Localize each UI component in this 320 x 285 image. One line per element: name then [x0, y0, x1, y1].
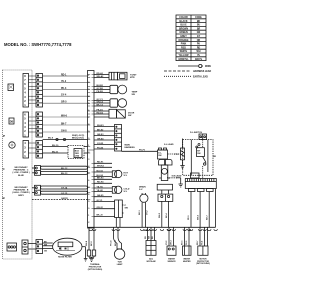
svg-text:BLUE: BLUE	[180, 25, 187, 27]
svg-text:PTC: PTC	[175, 154, 180, 156]
motor tab 3	[207, 189, 214, 192]
svg-text:6: 6	[88, 180, 90, 182]
svg-text:WH-A2: WH-A2	[97, 75, 105, 78]
svg-text:GRN/YEL: GRN/YEL	[178, 59, 189, 61]
atc drop labels	[166, 240, 173, 245]
svg-text:S.V.: S.V.	[124, 175, 128, 177]
svg-text:GN: GN	[44, 250, 47, 252]
extra harness stub wires	[94, 162, 112, 197]
svg-text:2: 2	[88, 82, 90, 84]
control board outline	[3, 70, 33, 259]
svg-text:GY-15: GY-15	[61, 193, 68, 195]
svg-text:DRAIN: DRAIN	[139, 186, 146, 189]
dashed lead line	[167, 177, 177, 179]
svg-text:WIRE: WIRE	[205, 66, 211, 68]
svg-text:SENSOR: SENSOR	[168, 261, 177, 263]
svg-text:5: 5	[24, 117, 26, 121]
svg-text:MAIN: MAIN	[125, 144, 131, 147]
svg-text:HARNESS LEAD: HARNESS LEAD	[193, 70, 211, 73]
main harness wires group2	[43, 117, 88, 132]
svg-text:PK-10: PK-10	[111, 239, 113, 246]
main connector strip right	[88, 71, 95, 229]
svg-text:OR-5: OR-5	[61, 102, 67, 104]
motor lead 2	[199, 192, 201, 228]
protector box	[198, 246, 208, 255]
svg-text:GY-J1: GY-J1	[97, 200, 104, 202]
svg-text:GN-K5: GN-K5	[97, 195, 104, 197]
svg-text:WHT/LAM: WHT/LAM	[147, 260, 156, 263]
motor lead 3	[208, 192, 210, 228]
svg-text:PK-D1: PK-D1	[97, 109, 104, 111]
protector drop labels	[197, 241, 204, 245]
adj label	[147, 257, 156, 262]
dl contact circles	[196, 146, 198, 148]
plug pair C	[32, 166, 41, 176]
svg-text:YE-2: YE-2	[61, 81, 67, 83]
svg-text:BR: BR	[197, 28, 201, 30]
board symbol box	[8, 84, 14, 91]
svg-text:GREEN: GREEN	[179, 32, 188, 34]
wire color code table	[176, 15, 206, 61]
svg-text:RD-7: RD-7	[197, 241, 199, 245]
junction box dashed	[43, 145, 88, 159]
dashed earth wire	[32, 198, 88, 200]
lead C1	[41, 166, 88, 170]
protector label	[196, 258, 210, 265]
drive motor	[185, 179, 216, 228]
svg-text:RD-1: RD-1	[61, 74, 67, 76]
svg-text:S.L.LEAD: S.L.LEAD	[164, 143, 174, 146]
svg-text:5: 5	[24, 86, 26, 90]
motor right edge wire	[215, 189, 217, 228]
svg-text:(1W): (1W)	[75, 155, 80, 157]
adj terminal grid box	[146, 241, 156, 256]
svg-text:BLACK: BLACK	[179, 20, 187, 23]
svg-text:P: P	[3, 134, 5, 138]
svg-text:DB: DB	[10, 121, 14, 124]
motor relay block	[158, 190, 173, 227]
ground ptc	[180, 166, 184, 169]
svg-text:RD: RD	[213, 156, 216, 158]
svg-text:S.V.: S.V.	[139, 189, 143, 191]
thermal fuse 2	[92, 250, 95, 256]
legend earth lead	[164, 75, 191, 77]
mid strip wires	[94, 125, 115, 149]
tub lamp label	[117, 262, 123, 267]
svg-text:WH-E1: WH-E1	[97, 125, 105, 127]
ground thermal	[89, 258, 93, 261]
thermal fuse 1	[87, 250, 90, 256]
svg-text:2: 2	[88, 222, 90, 224]
lead B1	[41, 186, 88, 190]
motor tab 1	[188, 189, 195, 192]
board-to-harness stub wires	[29, 76, 37, 153]
tub lamp wires	[114, 227, 122, 249]
svg-text:GREY: GREY	[18, 195, 25, 197]
svg-text:RD-D2: RD-D2	[97, 112, 104, 114]
svg-text:BK-J3: BK-J3	[97, 215, 104, 217]
svg-text:B: B	[3, 196, 6, 200]
svg-text:OR: OR	[197, 40, 201, 42]
lead C2	[41, 171, 88, 175]
cold water valve	[112, 186, 130, 193]
svg-text:GN/YE: GN/YE	[195, 59, 203, 61]
dl terminal box	[199, 134, 207, 140]
svg-text:BU-11: BU-11	[52, 151, 59, 153]
svg-text:EARTH LEAD: EARTH LEAD	[193, 76, 208, 79]
timer unit motor wires	[94, 72, 109, 78]
text block secondary pressure switch B	[12, 186, 30, 197]
svg-text:BK-K3: BK-K3	[97, 178, 104, 180]
connector strip CN2	[23, 112, 29, 137]
drain valve wire labels	[139, 209, 149, 215]
harness block H3	[36, 141, 43, 159]
svg-text:4: 4	[24, 121, 26, 125]
dl lever	[203, 157, 206, 163]
svg-text:BU-10: BU-10	[52, 145, 59, 147]
svg-text:WH-6: WH-6	[197, 214, 199, 220]
svg-text:BU-1: BU-1	[139, 209, 141, 215]
svg-text:SW: SW	[128, 115, 131, 117]
relay wire labels	[159, 212, 168, 218]
svg-text:WH-K2: WH-K2	[97, 166, 105, 168]
svg-text:1: 1	[24, 154, 26, 158]
svg-text:3: 3	[24, 145, 26, 149]
svg-text:9: 9	[88, 201, 90, 203]
svg-text:WH: WH	[197, 51, 201, 53]
protector drops	[200, 227, 208, 246]
svg-text:RED: RED	[181, 47, 186, 49]
harness block H1	[36, 74, 43, 108]
svg-text:BU-B1: BU-B1	[97, 85, 104, 87]
svg-text:BU-12: BU-12	[61, 168, 68, 170]
svg-text:6: 6	[24, 82, 26, 86]
svg-text:PK: PK	[197, 44, 201, 46]
svg-text:GN-E3: GN-E3	[97, 134, 104, 136]
door lock sw box	[158, 148, 168, 159]
svg-text:ORANGE: ORANGE	[178, 39, 189, 42]
heater drops	[185, 227, 190, 246]
svg-text:PK-6: PK-6	[186, 241, 188, 245]
drain valve label	[139, 186, 146, 192]
svg-text:GY: GY	[197, 36, 201, 38]
svg-text:BU-13: BU-13	[61, 173, 68, 175]
svg-text:BU-G1: BU-G1	[97, 170, 104, 172]
svg-text:WHITE: WHITE	[180, 51, 188, 53]
svg-text:YE-8: YE-8	[202, 241, 204, 245]
svg-text:WH: WH	[149, 235, 151, 239]
svg-text:BU: BU	[197, 25, 201, 27]
water temp sensor wires	[94, 92, 138, 107]
harness block H4	[28, 240, 43, 254]
motor lead 1	[190, 192, 192, 228]
svg-text:GY-2: GY-2	[147, 210, 149, 215]
fuse join wires	[89, 256, 94, 258]
legend wire symbol	[164, 64, 211, 78]
harness block H2	[36, 112, 43, 137]
atc switch drops	[169, 227, 174, 246]
svg-text:1: 1	[88, 75, 90, 77]
svg-text:MODEL NO. : SWH7770,7774,7778: MODEL NO. : SWH7770,7774,7778	[4, 42, 72, 47]
text block secondary pressure switch C	[12, 166, 29, 177]
svg-text:BK-C3: BK-C3	[97, 104, 104, 106]
svg-text:WH-8: WH-8	[86, 240, 88, 246]
crown base box	[157, 184, 172, 190]
board relay box	[7, 243, 17, 251]
svg-text:6: 6	[24, 112, 26, 116]
svg-text:MTR: MTR	[130, 77, 135, 79]
svg-text:4: 4	[24, 141, 26, 145]
door switch	[109, 109, 135, 118]
svg-text:PU-E6: PU-E6	[97, 147, 104, 149]
svg-text:HARNESS: HARNESS	[125, 146, 136, 149]
svg-text:PK-B3: PK-B3	[97, 91, 104, 93]
svg-text:LAMP: LAMP	[117, 263, 123, 266]
svg-text:YE: YE	[197, 55, 201, 57]
heater box	[183, 246, 192, 255]
noise filter wires	[43, 241, 53, 252]
svg-text:GREY: GREY	[180, 36, 187, 38]
PTC resistor	[175, 139, 185, 166]
noise filter	[53, 238, 82, 255]
svg-text:RD-K1: RD-K1	[97, 162, 104, 164]
svg-text:BK: BK	[152, 236, 154, 239]
svg-text:7: 7	[24, 78, 26, 82]
cold valve wires	[94, 186, 112, 192]
svg-text:THERMAL: THERMAL	[90, 263, 101, 266]
svg-text:SW: SW	[132, 94, 135, 96]
svg-text:GY-E5: GY-E5	[97, 143, 104, 145]
atc switch box	[167, 246, 176, 255]
pressure switch	[115, 200, 128, 218]
svg-text:YE-H1: YE-H1	[97, 186, 104, 188]
svg-text:(W/TOUCHING): (W/TOUCHING)	[196, 263, 210, 265]
svg-text:WH-3: WH-3	[159, 212, 161, 218]
ground sm	[176, 178, 183, 187]
svg-text:WH-6: WH-6	[61, 115, 68, 117]
svg-text:OR-J2: OR-J2	[97, 207, 104, 209]
svg-text:C: C	[3, 167, 6, 171]
svg-text:(W/TOUCHING): (W/TOUCHING)	[88, 269, 103, 271]
drain valve	[140, 193, 148, 227]
wash thermostat wires	[94, 85, 110, 93]
svg-text:GN/YE: GN/YE	[61, 198, 68, 200]
board component DB	[9, 118, 14, 124]
svg-text:5: 5	[88, 173, 90, 175]
svg-text:OR-E4: OR-E4	[97, 137, 104, 140]
thermal fuse labels	[86, 240, 93, 246]
motor lead labels	[188, 214, 208, 220]
lead B2	[41, 191, 88, 195]
door lock switch cluster	[183, 132, 217, 178]
svg-text:RD-A1: RD-A1	[97, 72, 104, 75]
ground noise filter	[84, 259, 88, 262]
svg-text:RD: RD	[197, 47, 201, 49]
svg-text:NOISE FILTER: NOISE FILTER	[58, 256, 72, 258]
heater drop labels	[182, 241, 189, 245]
water temp sensor	[110, 99, 127, 108]
pressure switch drops	[116, 218, 120, 228]
dl dashed enclosure	[183, 140, 213, 176]
svg-text:BROWN: BROWN	[179, 28, 188, 30]
wire with splices	[43, 135, 88, 140]
svg-text:OR-4: OR-4	[170, 240, 173, 245]
svg-text:4: 4	[88, 95, 90, 98]
svg-text:CODE: CODE	[195, 17, 202, 19]
svg-text:3: 3	[88, 159, 90, 161]
svg-text:3: 3	[24, 125, 26, 129]
svg-text:8: 8	[88, 194, 90, 196]
door lock feed wire	[122, 150, 158, 152]
dl link wire	[168, 153, 183, 155]
svg-text:BK-4: BK-4	[165, 212, 168, 218]
svg-text:BK(1)-GY(1): BK(1)-GY(1)	[72, 138, 84, 140]
atc label	[168, 257, 177, 262]
svg-text:BU-5: BU-5	[182, 241, 184, 245]
board circle symbol	[9, 142, 15, 148]
svg-text:SW: SW	[158, 155, 161, 157]
svg-text:BK: BK	[197, 21, 201, 23]
thermal label	[88, 263, 103, 271]
plug pair B	[32, 185, 41, 195]
svg-text:SECONDARY: SECONDARY	[14, 186, 28, 189]
svg-text:RD-5: RD-5	[188, 214, 190, 220]
timer unit motor	[109, 72, 137, 80]
svg-text:OR-C2: OR-C2	[97, 101, 104, 103]
svg-text:GN: GN	[197, 32, 201, 34]
svg-text:7: 7	[88, 117, 90, 119]
adj drop labels	[145, 235, 154, 239]
svg-text:BU-G2: BU-G2	[97, 175, 104, 177]
svg-text:PINK: PINK	[181, 44, 187, 46]
noise filter earth wire	[82, 247, 86, 259]
svg-text:2: 2	[24, 129, 26, 133]
svg-text:RD: RD	[145, 236, 147, 239]
mid harness strip	[115, 125, 136, 152]
connector strip CN3	[23, 141, 29, 159]
svg-text:GY-4: GY-4	[61, 94, 67, 97]
thermal fuse wires	[89, 227, 94, 250]
svg-text:HEATER: HEATER	[183, 260, 191, 263]
svg-text:BLUE: BLUE	[18, 175, 24, 177]
pressure switch wires	[94, 200, 115, 217]
mt switch box	[197, 148, 205, 157]
svg-text:GY-14: GY-14	[61, 187, 68, 190]
svg-text:2: 2	[24, 99, 26, 103]
board connector CN4	[22, 240, 28, 254]
heater label	[183, 257, 191, 262]
svg-text:BK-9: BK-9	[91, 240, 93, 246]
svg-text:PU-F1: PU-F1	[139, 150, 146, 152]
door switch wires	[94, 109, 109, 117]
legend harness lead	[164, 70, 191, 72]
svg-text:GN-8: GN-8	[61, 130, 67, 132]
start capacitor crown	[159, 160, 173, 181]
svg-text:3: 3	[24, 95, 26, 99]
svg-text:8: 8	[24, 74, 26, 78]
connector strip CN1	[23, 74, 29, 108]
svg-text:RD-K4: RD-K4	[97, 181, 104, 184]
svg-text:BK-E2: BK-E2	[97, 129, 104, 131]
adj terminal grid drops	[148, 227, 155, 240]
svg-text:S.V.: S.V.	[124, 191, 128, 193]
svg-text:YELLOW: YELLOW	[179, 55, 190, 57]
tub lamp labels	[111, 239, 118, 246]
motor tab 2	[198, 189, 205, 192]
dl internal lines	[190, 140, 192, 176]
hot water valve	[112, 170, 128, 177]
svg-text:S.M.LEAD: S.M.LEAD	[172, 175, 182, 178]
svg-text:3: 3	[88, 89, 90, 91]
hot valve wires	[94, 170, 112, 177]
svg-text:0: 0	[88, 208, 90, 210]
svg-text:SW: SW	[197, 153, 200, 155]
svg-text:GY-B2: GY-B2	[97, 88, 104, 90]
svg-text:GY-3: GY-3	[166, 241, 168, 245]
bottom bus	[88, 227, 217, 230]
svg-text:4: 4	[24, 91, 26, 95]
main harness wires group1	[43, 76, 88, 103]
svg-text:1: 1	[24, 103, 26, 107]
svg-text:SW: SW	[125, 208, 128, 210]
svg-text:1: 1	[88, 215, 90, 217]
svg-text:BK-7: BK-7	[61, 123, 67, 125]
svg-text:BU-7: BU-7	[206, 214, 208, 220]
svg-text:COLOR: COLOR	[179, 17, 188, 19]
svg-text:YE-H2: YE-H2	[97, 190, 104, 192]
svg-text:SECONDARY: SECONDARY	[14, 166, 28, 169]
svg-text:BU-11: BU-11	[115, 239, 117, 246]
svg-text:BU-9: BU-9	[48, 138, 54, 140]
svg-text:2: 2	[24, 150, 26, 154]
wash thermostat	[110, 85, 127, 94]
svg-text:PK-3: PK-3	[61, 88, 67, 90]
tub lamp	[114, 249, 124, 259]
